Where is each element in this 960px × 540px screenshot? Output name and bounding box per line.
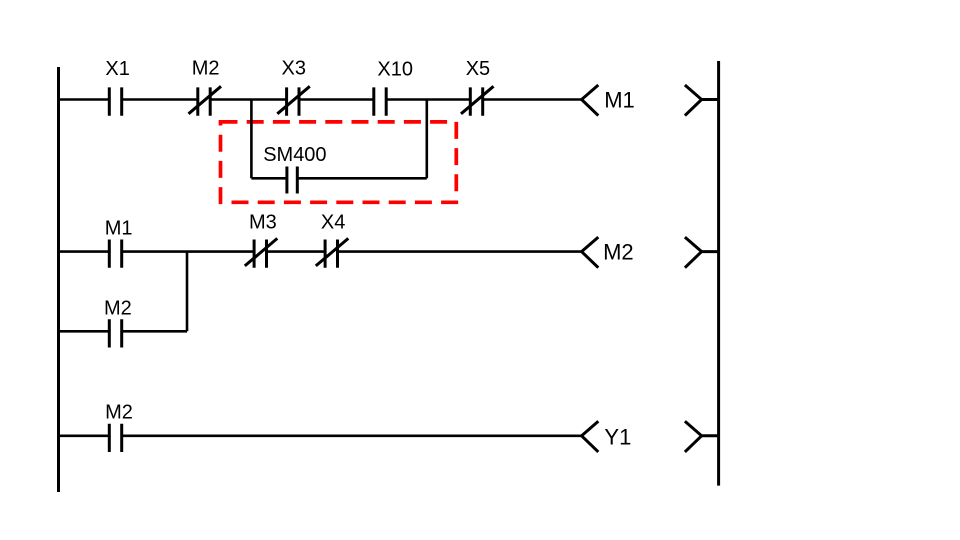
svg-text:M1: M1 [604, 88, 635, 113]
svg-text:M2: M2 [603, 240, 634, 265]
svg-text:X4: X4 [321, 212, 345, 234]
svg-text:X10: X10 [377, 59, 413, 81]
svg-text:M2: M2 [104, 297, 132, 319]
svg-text:M2: M2 [105, 401, 133, 423]
svg-text:M1: M1 [105, 218, 133, 240]
svg-text:X3: X3 [282, 58, 306, 80]
svg-text:Y1: Y1 [604, 425, 631, 450]
svg-text:M3: M3 [249, 212, 277, 234]
svg-text:M2: M2 [192, 58, 220, 80]
svg-text:SM400: SM400 [263, 144, 326, 166]
svg-text:X1: X1 [105, 58, 129, 80]
svg-text:X5: X5 [466, 58, 490, 80]
